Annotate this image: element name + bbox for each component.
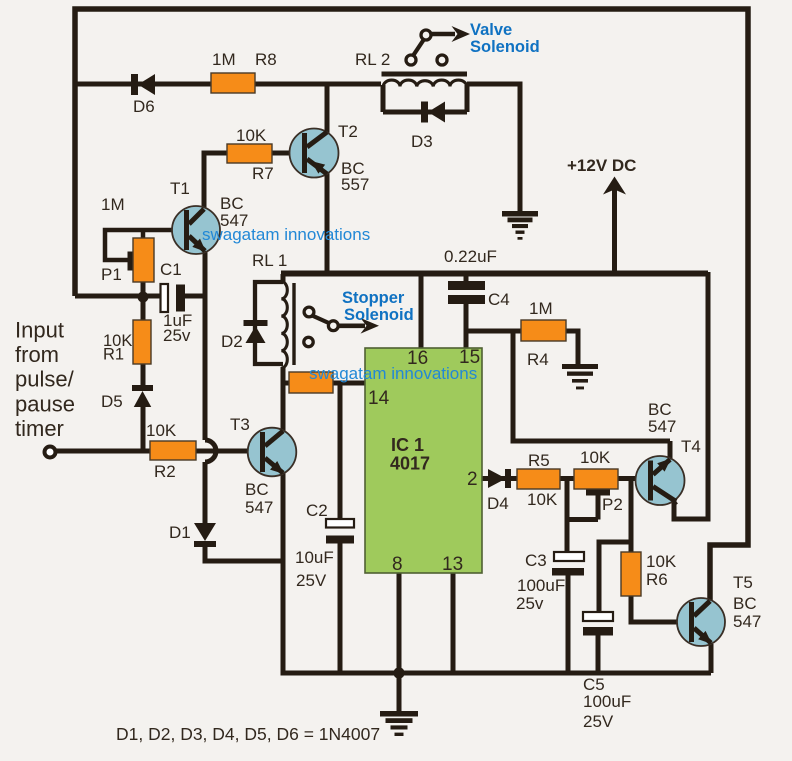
- svg-text:547: 547: [245, 498, 273, 517]
- svg-text:RL 1: RL 1: [252, 251, 287, 270]
- svg-text:+12V DC: +12V DC: [567, 156, 636, 175]
- svg-text:R6: R6: [646, 570, 668, 589]
- svg-text:IC 1: IC 1: [391, 435, 424, 455]
- svg-text:10K: 10K: [646, 552, 677, 571]
- svg-text:T4: T4: [681, 437, 701, 456]
- svg-text:2: 2: [467, 469, 478, 490]
- svg-text:T5: T5: [733, 573, 753, 592]
- svg-text:BC: BC: [245, 480, 269, 499]
- svg-text:547: 547: [733, 612, 761, 631]
- svg-text:swagatam innovations: swagatam innovations: [309, 364, 477, 383]
- svg-text:R7: R7: [252, 164, 274, 183]
- svg-text:Input: Input: [15, 318, 64, 343]
- svg-text:BC: BC: [733, 594, 757, 613]
- svg-text:T2: T2: [338, 122, 358, 141]
- svg-text:25V: 25V: [583, 712, 614, 731]
- svg-text:R4: R4: [527, 350, 549, 369]
- svg-text:D5: D5: [101, 392, 123, 411]
- svg-text:1M: 1M: [101, 195, 125, 214]
- svg-text:557: 557: [341, 175, 369, 194]
- svg-text:Solenoid: Solenoid: [344, 306, 414, 324]
- svg-text:P2: P2: [602, 495, 623, 514]
- svg-text:T1: T1: [170, 179, 190, 198]
- svg-text:1M: 1M: [529, 299, 553, 318]
- svg-text:D3: D3: [411, 132, 433, 151]
- svg-text:pulse/: pulse/: [15, 367, 75, 392]
- svg-text:R5: R5: [528, 451, 550, 470]
- svg-text:10K: 10K: [146, 421, 177, 440]
- svg-text:1M: 1M: [212, 50, 236, 69]
- svg-text:T3: T3: [230, 415, 250, 434]
- svg-text:C4: C4: [488, 290, 510, 309]
- svg-text:100uF: 100uF: [583, 692, 631, 711]
- svg-text:RL 2: RL 2: [355, 50, 390, 69]
- svg-text:8: 8: [392, 554, 403, 575]
- svg-text:10uF: 10uF: [295, 548, 334, 567]
- svg-text:10K: 10K: [236, 126, 267, 145]
- svg-text:swagatam innovations: swagatam innovations: [202, 225, 370, 244]
- svg-text:25v: 25v: [163, 326, 191, 345]
- svg-text:pause: pause: [15, 391, 75, 416]
- svg-text:10K: 10K: [580, 448, 611, 467]
- svg-text:Solenoid: Solenoid: [470, 38, 540, 56]
- svg-text:C3: C3: [525, 551, 547, 570]
- svg-text:D2: D2: [221, 332, 243, 351]
- svg-text:P1: P1: [101, 265, 122, 284]
- svg-text:C1: C1: [160, 260, 182, 279]
- svg-text:R8: R8: [255, 50, 277, 69]
- svg-text:Valve: Valve: [470, 21, 512, 39]
- svg-text:0.22uF: 0.22uF: [444, 247, 497, 266]
- svg-text:D1, D2, D3, D4, D5, D6 = 1N400: D1, D2, D3, D4, D5, D6 = 1N4007: [116, 724, 380, 744]
- svg-text:13: 13: [442, 554, 463, 575]
- svg-text:D1: D1: [169, 523, 191, 542]
- svg-text:547: 547: [648, 417, 676, 436]
- svg-text:10K: 10K: [527, 490, 558, 509]
- svg-text:D4: D4: [487, 494, 509, 513]
- svg-text:from: from: [15, 342, 59, 367]
- svg-text:100uF: 100uF: [517, 576, 565, 595]
- svg-text:25V: 25V: [296, 571, 327, 590]
- svg-text:R1: R1: [103, 346, 124, 364]
- svg-text:timer: timer: [15, 416, 64, 441]
- svg-text:4017: 4017: [390, 454, 430, 474]
- svg-text:25v: 25v: [516, 594, 544, 613]
- svg-text:R2: R2: [154, 462, 176, 481]
- svg-text:D6: D6: [133, 97, 155, 116]
- svg-text:C2: C2: [306, 501, 328, 520]
- svg-text:14: 14: [368, 388, 390, 409]
- svg-text:Stopper: Stopper: [342, 289, 405, 307]
